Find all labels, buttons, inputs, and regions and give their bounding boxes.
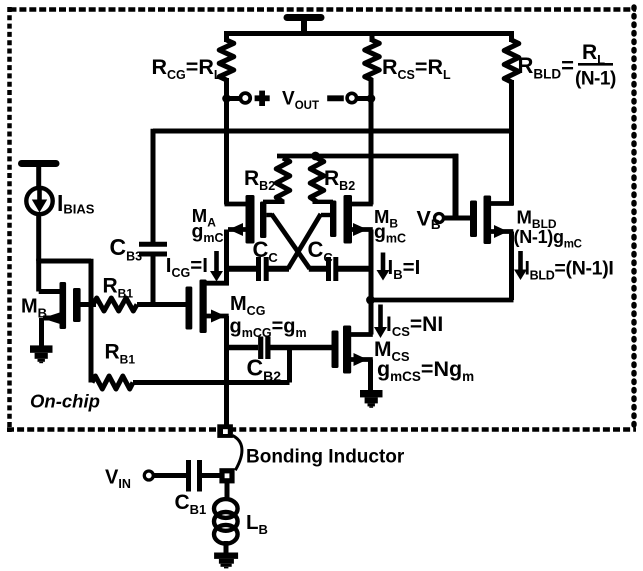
capacitor CC right [309, 257, 371, 281]
wire MCS source with arrow [347, 353, 373, 391]
node VIN open circle [144, 471, 153, 480]
junction node RB2/VB line [311, 152, 320, 161]
capacitor CB3 [139, 244, 167, 254]
wire CB3 bottom to RB1 node [151, 254, 156, 305]
inductor LB coil [214, 499, 238, 544]
transistor MCG [186, 280, 207, 334]
wire MB source with arrow [351, 223, 373, 236]
resistor RCG=RL [219, 31, 234, 80]
transistor MB (bias mirror) [60, 282, 81, 329]
wire VIN to CB1 [154, 473, 187, 478]
junction node VOUT+ [222, 94, 231, 103]
current arrow IBLD [514, 251, 527, 280]
wire mirror node horizontal [36, 259, 91, 264]
wire LB to ground [224, 541, 229, 554]
wire bleed net vertical to CB3 [151, 129, 156, 244]
transistor MBLD [470, 196, 491, 245]
capacitor CB1 [189, 460, 200, 492]
capacitor CB2 [227, 337, 333, 360]
capacitor CC left [227, 257, 290, 281]
current arrow ICS [374, 305, 387, 339]
current source IBIAS [26, 188, 52, 214]
wire CB2/RB1 junction vertical [287, 348, 292, 383]
wire pad down to LB [225, 483, 230, 500]
wire MA gate to RB2 [263, 200, 285, 204]
node VB open circle [435, 214, 444, 223]
resistor RCS=RL [365, 31, 380, 80]
wire RB1 to MCG gate [137, 302, 186, 307]
wire MCS drain [347, 332, 373, 337]
VDD supply bar top center [287, 18, 321, 37]
wire RCS bottom to MB drain [369, 78, 374, 205]
wire MA drain [225, 202, 247, 207]
on-chip dashed border left [7, 7, 12, 432]
wire MB gate to RB2 [313, 200, 334, 204]
wire MA source with arrow [228, 223, 246, 236]
wire MBLD source vertical [509, 232, 514, 301]
transistor MB [330, 195, 352, 244]
resistor RB2 left [276, 158, 290, 202]
wire MB-mirror drain [39, 259, 62, 292]
plus sign [255, 91, 270, 106]
wire MCG source with arrow [203, 310, 229, 323]
wire bleed net horizontal y131 [153, 129, 512, 134]
current arrow ICG [210, 251, 223, 282]
wire VB vertical drop [453, 154, 459, 218]
wire cross-couple diagonal A [272, 214, 310, 269]
svg-text:(N-1): (N-1) [575, 69, 616, 90]
wire MB-mirror source with arrow [42, 312, 63, 347]
wire MB drain [351, 202, 373, 207]
transistor MCS [332, 326, 352, 374]
wire MA source / MCG drain vertical [224, 230, 229, 286]
wire CB1 to pad [202, 473, 221, 478]
wire MCG source down to pad [224, 316, 229, 426]
wire VOUT- stub [357, 96, 372, 101]
ground (MCS) [360, 390, 383, 408]
wire mirror vertical to RB1s [89, 259, 94, 383]
wire cross-couple diagonal B [288, 214, 321, 269]
wire MB source vertical to MCS drain [369, 230, 374, 335]
transistor MA [246, 195, 267, 244]
svg-text:IB=I: IB=I [388, 256, 421, 282]
on-chip dashed border bottom [7, 427, 636, 432]
on-chip dashed border top [10, 7, 637, 12]
wire VB bias line [277, 154, 458, 159]
svg-text:RCG=RL: RCG=RL [152, 55, 222, 82]
wire MB-mirror gate to RB1 [81, 302, 97, 307]
minus sign [327, 95, 344, 101]
svg-text:Bonding Inductor: Bonding Inductor [246, 447, 405, 468]
wire MB gate side stub [321, 213, 331, 217]
wire VOUT+ stub [227, 96, 241, 101]
wire MA gate side stub [266, 213, 272, 217]
junction node MCS drain [366, 296, 375, 305]
VDD supply bar left (IBIAS) [22, 164, 57, 190]
fraction bar [578, 63, 613, 66]
wire RB1 lower to MCS gate node [133, 380, 290, 385]
svg-text:On-chip: On-chip [30, 391, 100, 412]
wire bleed to MCS drain horizontal [371, 298, 514, 303]
wire MCG drain [203, 281, 229, 286]
node VOUT- open circle [347, 93, 356, 102]
svg-text:RCS=RL: RCS=RL [382, 55, 451, 82]
current arrow IB [377, 253, 390, 281]
ground (LB) [214, 553, 238, 569]
resistor RB2 right [310, 158, 324, 202]
resistor RBLD [504, 31, 519, 82]
pad on chip edge [217, 424, 233, 438]
bonding inductor arc [233, 436, 242, 471]
resistor RB1 lower [92, 376, 133, 389]
wire RCG bottom to MA drain [224, 78, 229, 205]
ground (bias mirror) [30, 345, 53, 363]
wire IBIAS to mirror node [36, 214, 41, 261]
wire VB to MBLD gate [444, 216, 471, 221]
junction node VOUT- [367, 94, 376, 103]
wire MBLD drain [489, 201, 513, 206]
wire RBLD bottom to MBLD drain [509, 80, 514, 206]
on-chip dashed border right [631, 7, 636, 432]
node VOUT+ open circle [240, 93, 250, 103]
pad input node [219, 468, 234, 483]
wire MBLD source with arrow [489, 225, 513, 238]
top supply rail wire [224, 31, 512, 36]
resistor RB1 upper [93, 298, 137, 311]
